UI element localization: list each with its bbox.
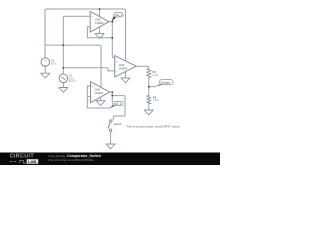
voltage source V2 circle (41, 58, 50, 67)
svg-text:2 kΩ: 2 kΩ (152, 73, 158, 77)
ground under R4 (144, 110, 153, 115)
svg-text:LM324: LM324 (119, 67, 128, 71)
svg-text:−: − (44, 64, 46, 68)
wire OA1 output node down to OA3 +in (112, 38, 117, 58)
wire V2+ up to top rail across to OA3 V+ drop (45, 9, 126, 61)
ground under V1 (59, 88, 68, 93)
wire OA1 V- pin stub (99, 27, 101, 34)
wire V1 node right to OA3 -in (63, 68, 114, 71)
junction dot V1 column on mid rail (62, 44, 64, 46)
wire OA2 V- pin stub (100, 98, 102, 101)
junction dot OA1 V+ on top rail (99, 8, 101, 10)
wire switch bottom to ground (110, 132, 112, 145)
junction dot OA1 output node (111, 21, 113, 23)
op-amp OA3 triangle (115, 56, 137, 77)
wire OA3 V- pin stub (125, 72, 127, 78)
wire OA1 output feedback loop to OA1 -in (87, 22, 112, 38)
wire R4 bottom to ground (148, 104, 150, 111)
wire OA2 +in down and right to Out_2 tag node (87, 86, 110, 108)
junction dot Output node between R6 and R4 (148, 86, 150, 88)
op-amp OA2 triangle (91, 82, 110, 103)
svg-text:OA2: OA2 (95, 88, 101, 92)
ground under switch (106, 144, 115, 149)
svg-text:Output: Output (161, 80, 170, 84)
svg-text:OA3: OA3 (119, 63, 125, 67)
node tag Output (155, 80, 173, 87)
ground under OA3 (121, 78, 130, 83)
svg-text:1 kΩ: 1 kΩ (153, 98, 159, 102)
wire OA2 -in pin stub (87, 96, 90, 98)
svg-text:−: − (92, 95, 94, 99)
svg-text:LM324: LM324 (95, 91, 104, 95)
svg-text:http://circuitlab.com/c88s4v58: http://circuitlab.com/c88s4v587b8kv (48, 158, 94, 162)
svg-text:+: + (92, 84, 94, 88)
ground under OA1 (95, 34, 104, 39)
svg-text:OA1: OA1 (95, 17, 101, 21)
resistor R4 (147, 95, 151, 103)
wire OA1 +in left corner down to V1 top (63, 16, 90, 74)
logo waveform glyph (10, 160, 26, 163)
svg-text:−: − (91, 25, 93, 29)
svg-text:Switch: Switch (114, 122, 122, 126)
resistor R6 (147, 69, 151, 78)
wire Out_2 tag stub to OA2 output node (111, 96, 113, 102)
wire V1 bottom to ground (62, 83, 64, 88)
voltage source V1 circle (59, 74, 68, 83)
junction dot OA1 feedback corner (111, 37, 113, 39)
svg-text:LM324: LM324 (95, 21, 104, 25)
svg-text:+: + (116, 60, 118, 64)
wire OA3 output to R6 top (136, 66, 149, 68)
op-amp OA1 triangle (90, 11, 109, 32)
footer bar (0, 153, 220, 166)
wire V2 bottom to ground (44, 66, 46, 73)
wire mid rail from V2 branch to OA2 V+ (45, 45, 101, 87)
svg-text:10 Hz: 10 Hz (69, 79, 77, 83)
wire R6 bottom to R4 top (148, 77, 150, 95)
switch SW1 (push button SPST) (108, 120, 112, 132)
svg-text:This is a push button on/off S: This is a push button on/off SPST switch (126, 125, 180, 129)
svg-text:+: + (91, 14, 93, 18)
logo LAB box (27, 159, 39, 164)
wire output node to Output tag pointer (149, 86, 155, 88)
junction dot OA2 output lower corner (111, 95, 113, 97)
svg-text:Out_2: Out_2 (114, 102, 122, 106)
svg-text:LAB: LAB (28, 159, 36, 164)
svg-text:+: + (44, 58, 46, 62)
node tag Out_1 (112, 13, 123, 22)
ground under OA2 (96, 101, 105, 106)
node tag Out_2 (110, 102, 123, 109)
wire OA2 output right and down to switch top (110, 92, 125, 120)
sine glyph inside V1 (61, 77, 65, 79)
junction dot OA2 output node (111, 91, 113, 93)
svg-text:−: − (116, 69, 118, 73)
wire OA1 V+ pin stub (99, 9, 101, 16)
ground under V2 (41, 73, 50, 78)
junction dot V1 top branch (62, 67, 64, 69)
svg-text:Out_1: Out_1 (115, 13, 123, 17)
svg-text:30 V: 30 V (51, 61, 57, 65)
